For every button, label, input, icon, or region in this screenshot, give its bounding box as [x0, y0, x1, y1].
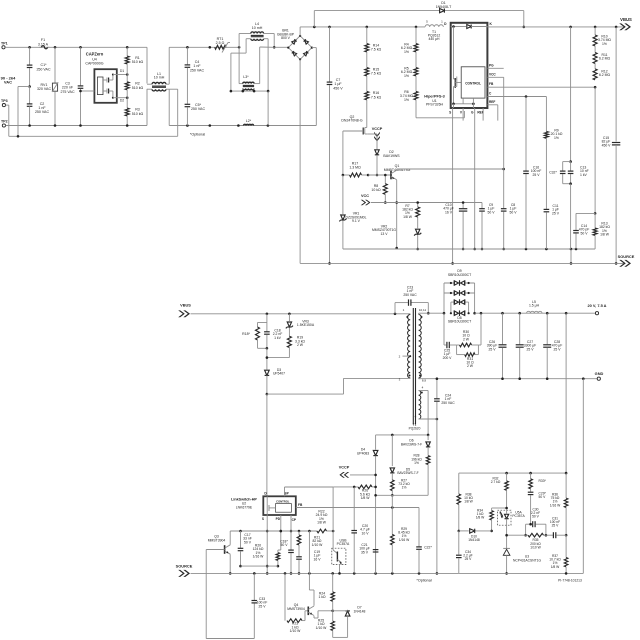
bridge rectifier BR1: [277, 29, 312, 60]
resistor R14: [365, 27, 382, 52]
svg-text:1%: 1%: [404, 50, 409, 54]
varistor RV1: [37, 47, 58, 125]
svg-text:1/8 W: 1/8 W: [600, 233, 610, 237]
thermistor RT1: [215, 37, 230, 53]
svg-text:NCP431ACSNT1G: NCP431ACSNT1G: [513, 558, 541, 562]
svg-text:S: S: [262, 517, 264, 521]
wire earth rail: [9, 135, 178, 138]
resistor R23: [285, 573, 308, 633]
svg-text:SOURCE: SOURCE: [176, 563, 193, 568]
resistor R29: [391, 527, 411, 573]
svg-text:SBR10U300CT: SBR10U300CT: [448, 273, 471, 277]
resistor R4: [401, 27, 418, 54]
diode D8 rectifier: [443, 299, 476, 323]
capacitor C4: [185, 47, 205, 104]
node VCC supply arrow: [361, 194, 482, 205]
svg-text:2 W: 2 W: [467, 364, 474, 368]
svg-text:S: S: [449, 111, 451, 115]
svg-text:FB: FB: [489, 82, 494, 86]
svg-text:450 V: 450 V: [333, 86, 343, 90]
capacitor C18: [264, 323, 282, 350]
svg-text:DN2470N8-G: DN2470N8-G: [341, 119, 362, 123]
capacitor C11: [544, 138, 560, 249]
transformer T2 primary: [403, 308, 411, 379]
svg-text:50 V: 50 V: [539, 495, 547, 499]
diode D1 bypass: [314, 1, 525, 28]
wire U4 left pin: [79, 90, 94, 93]
label drawing number: [558, 579, 582, 583]
svg-text:20 V, 7.5 A: 20 V, 7.5 A: [588, 303, 607, 308]
wire R27 to FB column: [391, 495, 393, 534]
capacitor C32 optional: [549, 27, 572, 184]
capacitor C18b: [280, 540, 294, 575]
svg-text:HiperPFS-3: HiperPFS-3: [424, 94, 444, 98]
resistor R20: [253, 544, 281, 568]
svg-text:MMST3904: MMST3904: [208, 538, 226, 542]
resistor R2: [125, 75, 143, 98]
wire bridge minus drop: [299, 59, 301, 263]
node VBUS output: [619, 17, 632, 30]
svg-text:6.2 MΩ: 6.2 MΩ: [599, 73, 610, 77]
wire divider column: [594, 87, 597, 215]
svg-text:320 VAC: 320 VAC: [37, 87, 52, 91]
wire Q1 emitter VCC row: [397, 168, 505, 171]
svg-text:1%: 1%: [602, 42, 607, 46]
inductor L3 common-mode choke: [231, 39, 274, 91]
svg-text:50 V: 50 V: [244, 540, 252, 544]
pin U1 REF bottom: [477, 108, 483, 121]
wire U1 internal bottom: [452, 98, 475, 108]
inductor L1 common-mode choke: [147, 47, 178, 136]
svg-text:50 V: 50 V: [488, 210, 496, 214]
svg-text:1/16 W: 1/16 W: [253, 555, 265, 559]
IC U1 HiperPFS-3: [424, 22, 492, 108]
svg-text:TP2: TP2: [1, 120, 8, 124]
wire mid top rail: [169, 46, 239, 49]
node SOURCE input arrow: [176, 563, 459, 577]
wire gnd drop: [582, 379, 584, 574]
svg-text:250 VAC: 250 VAC: [190, 68, 205, 72]
wire clamp to D3: [266, 348, 269, 369]
pin T2 pin 3: [399, 375, 411, 382]
svg-text:25 V: 25 V: [552, 211, 560, 215]
svg-text:10 mH: 10 mH: [154, 76, 165, 80]
diode D2: [375, 150, 400, 175]
diode D6: [401, 435, 430, 456]
capacitor C22 optional: [416, 508, 432, 574]
pin U2 FB: [296, 503, 419, 509]
resistor R35: [524, 533, 547, 549]
wire U4 D2 pin: [113, 96, 129, 102]
resistor R31: [457, 313, 481, 368]
resistor R25: [316, 611, 335, 638]
svg-text:LNK6779E: LNK6779E: [236, 505, 253, 509]
capacitor C27: [516, 313, 537, 380]
svg-text:1 kV: 1 kV: [274, 336, 282, 340]
node C1-C2 junction: [28, 85, 31, 88]
svg-text:250 VAC: 250 VAC: [36, 67, 51, 71]
svg-text:510 kΩ: 510 kΩ: [132, 60, 144, 64]
capacitor C13: [568, 162, 589, 249]
capacitor C14: [573, 213, 595, 249]
label optional note bottom: [416, 579, 431, 583]
label 90-264 VAC input: [1, 75, 16, 84]
svg-text:UP4083: UP4083: [357, 451, 369, 455]
wire R28 to R27 row: [374, 494, 428, 497]
wire aux top rail: [376, 434, 430, 437]
diode D7: [333, 606, 366, 638]
inductor L2: [244, 119, 254, 126]
zener VR2: [372, 217, 421, 249]
capacitor C2: [27, 87, 50, 126]
wire PFC signal ground rail: [343, 248, 595, 251]
svg-text:VCCP: VCCP: [372, 127, 383, 131]
inductor L4 common-mode choke: [239, 22, 274, 47]
svg-text:1 kΩ: 1 kΩ: [318, 595, 326, 599]
wire L3 to L2 column: [267, 91, 269, 125]
svg-text:1/8 W: 1/8 W: [317, 521, 327, 525]
svg-text:7.5 kΩ: 7.5 kΩ: [371, 95, 382, 99]
resistor R11: [593, 46, 610, 64]
wire C29 to C30 node: [529, 523, 532, 526]
svg-text:D1: D1: [120, 69, 124, 73]
pin U2 PD: [276, 515, 283, 550]
svg-text:200 V: 200 V: [443, 356, 453, 360]
pin T2 tap 2: [399, 354, 412, 358]
capacitor C17: [238, 531, 252, 567]
svg-text:VBUS: VBUS: [180, 302, 191, 307]
resistor R26: [333, 485, 377, 500]
optocoupler U5A: [498, 509, 526, 548]
svg-text:UF5407: UF5407: [273, 372, 285, 376]
terminal TP1: [1, 42, 8, 49]
transformer T2 aux winding: [409, 386, 439, 435]
svg-text:L2*: L2*: [246, 119, 252, 123]
resistor R36: [550, 473, 568, 536]
resistor R34: [476, 507, 508, 533]
svg-text:TP1: TP1: [1, 42, 8, 46]
svg-text:GND: GND: [595, 371, 604, 376]
capacitor C26: [487, 313, 507, 380]
capacitor C16: [523, 97, 541, 250]
svg-text:9.1 V: 9.1 V: [352, 219, 361, 223]
svg-text:VAC: VAC: [4, 80, 12, 85]
resistor R28: [411, 454, 430, 496]
transformer T2 core: [413, 308, 415, 425]
capacitor C25 snubber: [443, 313, 457, 360]
svg-text:1.3 MΩ: 1.3 MΩ: [349, 166, 361, 170]
shunt regulator U3: [503, 548, 541, 574]
wire SOURCE rail: [300, 262, 625, 264]
svg-text:1/8 W: 1/8 W: [551, 565, 560, 569]
wire C17 R20 rail: [241, 565, 278, 567]
resistor R32: [491, 473, 509, 509]
wire output sense drop: [565, 313, 567, 473]
transistor Q3 NPN: [206, 531, 231, 639]
pin U1 REF: [487, 100, 497, 120]
node source rail dots: [253, 572, 420, 575]
wire feedback top rail: [459, 472, 568, 475]
terminal 20V output: [588, 303, 607, 315]
svg-text:*Optional: *Optional: [416, 579, 431, 583]
svg-text:1/16 W: 1/16 W: [399, 538, 410, 542]
resistor R37: [549, 535, 568, 575]
capacitor C20: [351, 487, 369, 574]
transistor U1 internal mosfet: [454, 27, 462, 104]
svg-text:250 VAC: 250 VAC: [191, 107, 206, 111]
svg-text:*Optional: *Optional: [190, 133, 205, 137]
svg-text:2 W: 2 W: [463, 337, 470, 341]
svg-text:25 V: 25 V: [527, 347, 535, 351]
resistor R30: [457, 330, 479, 347]
wire U1 internal drain rail: [451, 25, 488, 29]
svg-text:VCC: VCC: [361, 194, 369, 198]
inductor T1 PFC choke: [425, 20, 443, 42]
wire L3 bottom row: [230, 90, 270, 93]
svg-text:FB: FB: [298, 503, 303, 507]
node RT1 out: [238, 46, 241, 49]
wire drain to U2: [266, 394, 268, 496]
wire Q1 collector: [395, 180, 398, 250]
diode D4: [357, 435, 378, 574]
node TP1 rail junctions: [28, 46, 128, 49]
svg-text:450 V: 450 V: [602, 143, 612, 147]
capacitor C28: [543, 313, 562, 380]
capacitor C15: [602, 27, 621, 265]
svg-text:1%: 1%: [402, 486, 407, 490]
svg-text:2.7 kΩ: 2.7 kΩ: [491, 480, 501, 484]
svg-text:440 μH: 440 μH: [428, 37, 440, 41]
svg-text:1N4148: 1N4148: [468, 538, 480, 542]
svg-text:1 kV: 1 kV: [580, 173, 588, 177]
svg-text:1/16 W: 1/16 W: [550, 503, 561, 507]
svg-text:VBUS: VBUS: [620, 17, 632, 22]
wire GND rail: [582, 371, 604, 380]
svg-text:1.5 μH: 1.5 μH: [529, 304, 540, 308]
resistor R10: [593, 27, 611, 46]
wire drain node: [266, 378, 409, 395]
node VBUS input arrow: [178, 302, 403, 317]
svg-text:BAV19WS: BAV19WS: [383, 154, 400, 158]
terminal TP2: [1, 120, 147, 128]
optocoupler U5B: [332, 487, 350, 575]
wire ref row: [505, 534, 553, 537]
capacitor C30: [526, 508, 546, 536]
node SOURCE output: [618, 254, 635, 267]
wire bottom left rail: [206, 638, 254, 640]
resistor R16: [365, 76, 382, 100]
svg-text:10 mH: 10 mH: [252, 26, 263, 30]
capacitor C23: [395, 286, 430, 315]
wire input top rail: [5, 46, 147, 48]
transformer T2 secondary: [419, 308, 444, 378]
zener VR1: [339, 175, 366, 249]
wire Q4 collector riser: [309, 573, 314, 605]
wire mid bottom rail: [169, 124, 316, 127]
svg-text:PC357A: PC357A: [512, 514, 525, 518]
svg-text:1%: 1%: [404, 98, 409, 102]
svg-text:50 V: 50 V: [581, 231, 589, 235]
svg-text:16 V: 16 V: [314, 557, 322, 561]
wire U4 D1 pin: [113, 69, 129, 76]
resistor R13: [593, 213, 610, 249]
wire VBUS rail right: [487, 26, 625, 29]
svg-text:50 V: 50 V: [281, 543, 289, 547]
svg-text:1/10 W: 1/10 W: [530, 545, 541, 549]
pin U1 VCC: [487, 73, 503, 78]
resistor R33 optional: [529, 473, 547, 492]
svg-text:250 VAC: 250 VAC: [441, 401, 455, 405]
diode D3: [265, 368, 286, 394]
svg-text:50 V: 50 V: [532, 515, 540, 519]
svg-text:1%: 1%: [414, 461, 419, 465]
svg-text:25 V: 25 V: [533, 173, 541, 177]
capacitor C8: [501, 77, 517, 250]
svg-text:PC357A: PC357A: [337, 542, 350, 546]
IC U1 CONTROL block: [461, 67, 485, 98]
svg-text:25 V: 25 V: [554, 347, 562, 351]
wire primary control rail: [230, 530, 334, 533]
resistor R8: [371, 174, 387, 204]
capacitor C21: [359, 543, 378, 573]
capacitor C1: [27, 47, 51, 86]
resistor R7: [402, 201, 420, 250]
capacitor C3: [60, 47, 83, 125]
svg-text:1N4148: 1N4148: [354, 609, 366, 613]
fuse F1: [38, 38, 50, 49]
pin U2 S: [262, 515, 269, 575]
wire Q4 emitter: [314, 610, 334, 619]
resistor R27: [391, 479, 411, 497]
resistor R21: [297, 531, 323, 556]
transistor Q1 PNP: [384, 164, 411, 180]
inductor L5: [527, 300, 542, 313]
resistor R17: [342, 162, 391, 178]
transistor Q4 NPN: [287, 531, 314, 616]
svg-text:CAP0000G: CAP0000G: [85, 62, 103, 66]
svg-text:CONTROL: CONTROL: [276, 500, 290, 504]
svg-text:TP3: TP3: [1, 99, 8, 103]
svg-text:D2: D2: [120, 99, 124, 103]
capacitor C31: [550, 517, 566, 539]
resistor R38: [457, 473, 474, 532]
svg-text:SOURCE: SOURCE: [618, 254, 635, 259]
svg-text:PI-7748-101213: PI-7748-101213: [558, 579, 582, 583]
svg-text:2.5 Ω: 2.5 Ω: [216, 41, 225, 45]
resistor R15: [365, 52, 382, 76]
wire signal ground stub: [570, 249, 573, 265]
resistor R19: [267, 333, 306, 358]
resistor R1: [125, 47, 143, 74]
svg-text:250 VAC: 250 VAC: [403, 293, 417, 297]
capacitor C5: [185, 103, 206, 126]
label optional note: [190, 133, 205, 137]
svg-text:1/8 W: 1/8 W: [464, 500, 473, 504]
wire L4 out to bridge: [273, 46, 289, 49]
capacitor C24: [434, 377, 455, 419]
svg-text:800 V: 800 V: [281, 36, 291, 40]
svg-text:C22*: C22*: [424, 546, 432, 550]
node bottom rail junctions: [28, 124, 128, 127]
capacitor C29 optional: [528, 492, 547, 523]
svg-text:25 V: 25 V: [489, 347, 497, 351]
svg-text:10 V: 10 V: [362, 531, 370, 535]
label CAPZero U4: [85, 52, 103, 66]
svg-text:PG: PG: [489, 64, 494, 68]
pin U1 S: [449, 108, 454, 265]
diode D10: [459, 529, 492, 543]
svg-text:13 V: 13 V: [381, 232, 389, 236]
diode D5: [390, 435, 419, 480]
svg-text:MMST3904: MMST3904: [287, 607, 305, 611]
IC U4 CAPZero box: [94, 69, 116, 103]
svg-text:25 V: 25 V: [552, 524, 560, 528]
svg-text:R18*: R18*: [242, 332, 250, 336]
resistor R6: [400, 76, 418, 102]
terminal TP3: [1, 99, 9, 137]
svg-text:1.5KE150A: 1.5KE150A: [297, 323, 315, 327]
pin U1 V: [460, 108, 463, 121]
svg-text:250 VAC: 250 VAC: [35, 110, 50, 114]
wire bridge ac right: [312, 48, 316, 126]
wire bridge plus to VBUS rail: [299, 27, 301, 36]
svg-text:BAV23WS-7-F: BAV23WS-7-F: [401, 442, 422, 446]
capacitor C34: [456, 531, 473, 574]
resistor R22: [316, 510, 328, 533]
wire feedback bottom rail: [459, 572, 584, 574]
svg-text:510 kΩ: 510 kΩ: [132, 112, 144, 116]
svg-text:1/8 W: 1/8 W: [476, 516, 485, 520]
svg-text:510 kΩ: 510 kΩ: [132, 86, 144, 90]
svg-text:SBR10U300CT: SBR10U300CT: [448, 320, 471, 324]
svg-text:1/8 W: 1/8 W: [403, 215, 413, 219]
resistor R18 optional: [242, 314, 267, 349]
node VCCP arrow left: [339, 465, 377, 477]
pin U1 G: [471, 108, 476, 250]
svg-text:35 V: 35 V: [361, 550, 369, 554]
resistor R5: [401, 52, 418, 78]
capacitor C19: [296, 550, 321, 575]
IC U2 CONTROL block: [267, 496, 291, 515]
node VCCP supply arrow: [372, 127, 383, 142]
wire VBUS top rail: [300, 26, 425, 29]
pin U2 D: [264, 492, 267, 496]
svg-text:PFS7326H: PFS7326H: [426, 103, 444, 107]
svg-text:10 kΩ: 10 kΩ: [371, 188, 381, 192]
svg-text:1/10 W: 1/10 W: [290, 629, 302, 633]
svg-text:1%: 1%: [554, 136, 559, 140]
wire R6 to V pin: [416, 100, 464, 118]
svg-text:CONTROL: CONTROL: [465, 81, 481, 85]
diode D9 rectifier: [444, 269, 475, 313]
pin U1 PG: [487, 64, 503, 69]
capacitor C7: [327, 27, 344, 265]
svg-text:BAV23WS-7-F: BAV23WS-7-F: [397, 471, 418, 475]
pin T2 pins 8 9: [419, 375, 598, 383]
svg-text:R33*: R33*: [539, 479, 547, 483]
wire aux return: [436, 419, 439, 575]
svg-text:1/10 W: 1/10 W: [316, 626, 328, 630]
svg-text:PD: PD: [276, 517, 281, 521]
resistor R9: [544, 97, 562, 140]
svg-text:16 V: 16 V: [445, 210, 453, 214]
svg-text:CAPZero: CAPZero: [86, 52, 104, 57]
svg-text:10,11: 10,11: [419, 308, 427, 312]
capacitor C33: [252, 573, 268, 638]
capacitor C10: [443, 201, 467, 250]
svg-text:7.5 kΩ: 7.5 kΩ: [371, 71, 382, 75]
svg-text:6.2 MΩ: 6.2 MΩ: [599, 57, 610, 61]
